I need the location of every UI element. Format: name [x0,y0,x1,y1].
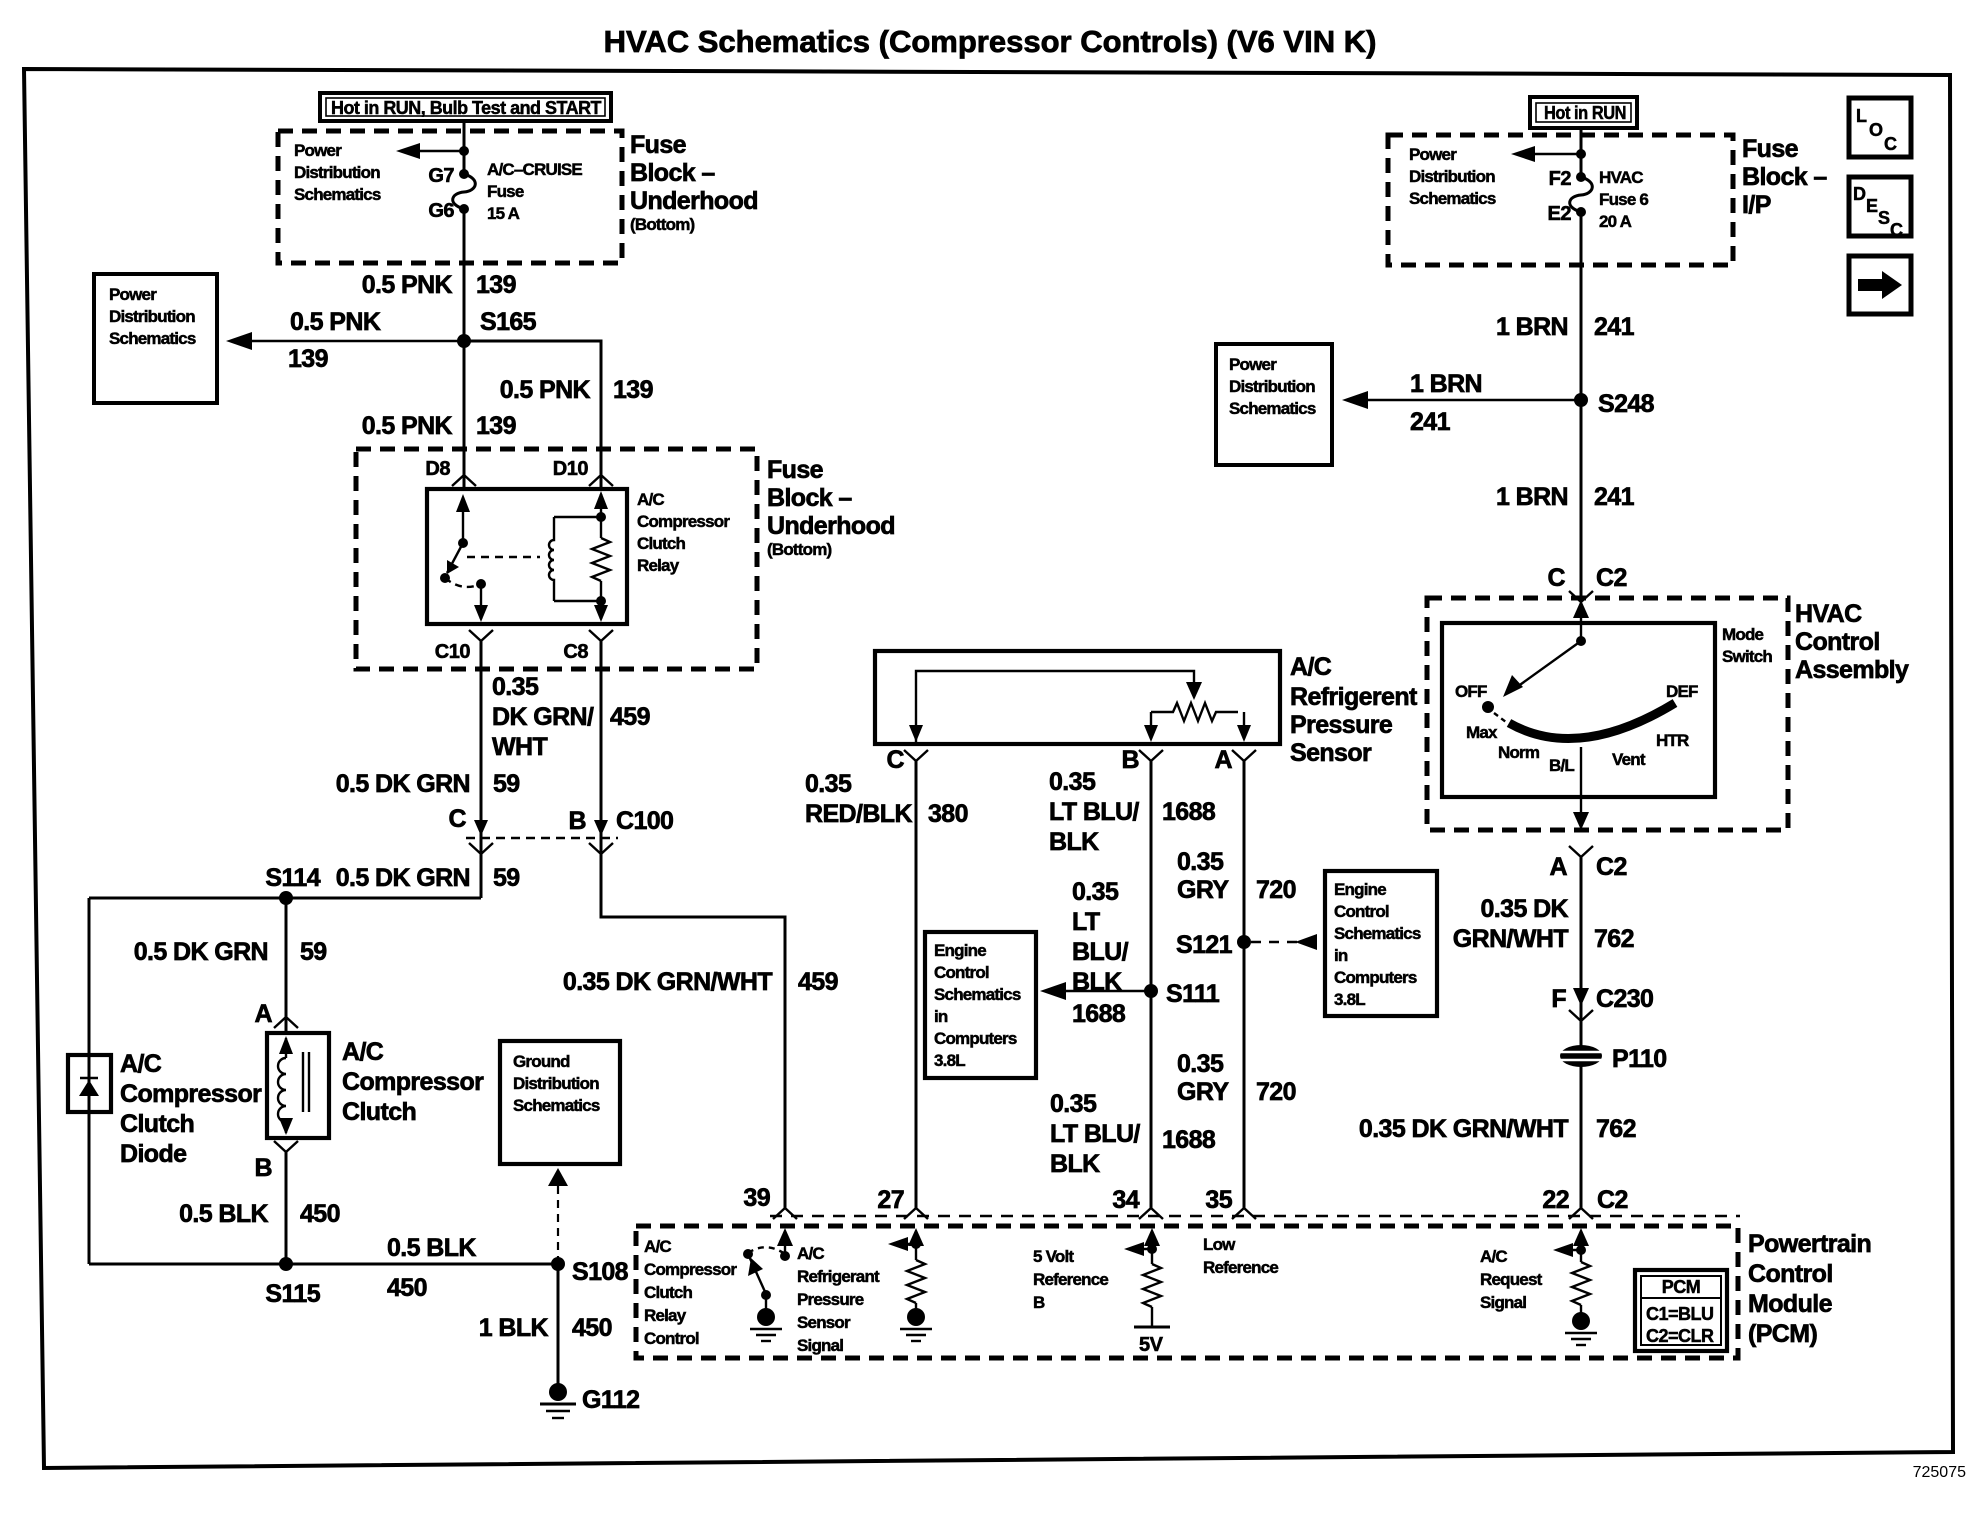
svg-text:Switch: Switch [1722,647,1772,666]
svg-text:Fuse: Fuse [630,131,687,159]
wire into mode switch [1573,600,1589,641]
wire sensor B to PCM pin 34 [1150,761,1153,1208]
svg-text:0.35: 0.35 [805,770,852,798]
svg-text:A: A [1550,853,1568,881]
svg-text:1688: 1688 [1162,1126,1216,1154]
connector C100 dashed separator [466,837,618,839]
label 0.5 BLK 450 [179,1200,340,1228]
svg-text:BLU/: BLU/ [1072,938,1129,966]
svg-text:E: E [1866,196,1878,216]
svg-text:762: 762 [1594,925,1634,953]
svg-text:139: 139 [288,345,328,373]
connector C100 pin B [569,807,674,854]
svg-text:Schematics: Schematics [513,1096,600,1115]
svg-text:459: 459 [798,968,838,996]
Hot in RUN Bulb Test and START label box [320,93,611,121]
svg-text:Block –: Block – [767,484,852,512]
connector C2 pin A [1550,846,1627,881]
svg-text:in: in [1334,946,1348,965]
pin C connector chevron [887,746,928,774]
svg-text:725075: 725075 [1913,1464,1966,1481]
svg-text:59: 59 [493,770,520,798]
label 0.5 DK GRN 59 (S114 row) [336,864,520,892]
svg-text:I/P: I/P [1742,191,1771,219]
wire G6 down to S165 and relay [463,209,466,489]
label 0.35 DK GRN/WHT 762 (lower) [1359,1115,1636,1143]
svg-text:C: C [1548,564,1566,592]
A/C compressor clutch relay box [427,489,627,624]
svg-text:Norm: Norm [1498,743,1540,762]
svg-text:Block –: Block – [630,159,715,187]
svg-text:Vent: Vent [1612,750,1646,769]
svg-text:in: in [934,1007,948,1026]
svg-text:DEF: DEF [1666,682,1698,701]
svg-text:A: A [255,1000,273,1028]
A/C compressor clutch diode [68,1055,111,1112]
svg-text:A/C: A/C [1290,653,1332,681]
label Fuse Block - I/P [1742,135,1827,219]
svg-text:Low: Low [1203,1235,1236,1254]
fuse block underhood dashed box (top) [278,131,622,263]
svg-text:E2: E2 [1548,203,1572,225]
svg-text:241: 241 [1410,408,1451,436]
label 1 BRN 241 (lower) [1496,483,1635,511]
label Mode Switch [1722,625,1772,666]
svg-text:Compressor: Compressor [120,1080,262,1108]
svg-text:A/C: A/C [342,1038,384,1066]
A/C compressor clutch [267,1033,329,1138]
node top feed junction [459,146,469,156]
label 0.5 PNK 139 (above S165) [362,271,516,299]
svg-text:Distribution: Distribution [1409,167,1495,186]
svg-text:Signal: Signal [1480,1293,1526,1312]
svg-text:B/L: B/L [1549,756,1574,775]
svg-text:Distribution: Distribution [1229,377,1315,396]
svg-text:Diode: Diode [120,1140,187,1168]
svg-text:S248: S248 [1598,390,1655,418]
svg-text:S111: S111 [1166,980,1220,1008]
svg-text:241: 241 [1594,483,1635,511]
svg-text:BLK: BLK [1049,828,1099,856]
svg-text:34: 34 [1112,1186,1139,1214]
label 0.35 GRY 720 (lower) [1177,1050,1296,1106]
svg-text:C230: C230 [1596,985,1653,1013]
svg-text:3.8L: 3.8L [1334,990,1365,1009]
svg-text:720: 720 [1256,876,1296,904]
svg-text:S114: S114 [265,864,320,892]
svg-text:D10: D10 [553,458,589,480]
svg-text:139: 139 [476,271,516,299]
svg-text:Schematics: Schematics [934,985,1021,1004]
svg-text:(Bottom): (Bottom) [630,215,695,234]
node S114 [279,891,293,905]
label 0.35 RED/BLK 380 [805,770,968,828]
wire C10 down to junction row [480,641,483,898]
svg-text:Schematics: Schematics [294,185,381,204]
ground distribution schematics box [500,1041,620,1164]
svg-text:O: O [1869,120,1883,140]
svg-text:Power: Power [1229,355,1277,374]
wire E2 down to S248 and HVAC assembly [1580,212,1583,597]
label Low Reference [1203,1235,1278,1277]
svg-text:C2=CLR: C2=CLR [1646,1326,1714,1346]
label A/C Compressor Clutch Relay Control [644,1237,737,1348]
power distribution schematics label (in fuse block) [294,141,381,204]
svg-text:D8: D8 [425,458,450,480]
svg-text:0.5 PNK: 0.5 PNK [290,308,381,336]
connector C100 pin C [449,805,493,854]
svg-text:5 Volt: 5 Volt [1033,1247,1074,1266]
fuse HVAC Fuse 6 20A element [1570,172,1593,217]
label A/C Compressor Clutch Relay [637,490,730,575]
node S108 [551,1257,565,1271]
svg-text:Distribution: Distribution [109,307,195,326]
svg-text:Underhood: Underhood [630,187,758,215]
label A/C Request Signal [1480,1247,1543,1312]
svg-text:WHT: WHT [492,733,547,761]
power distribution schematics label (I/P fuse block) [1409,145,1496,208]
svg-text:3.8L: 3.8L [934,1051,965,1070]
svg-text:G7: G7 [428,165,454,187]
svg-text:0.35: 0.35 [1177,848,1224,876]
pin C10 connector chevron [469,630,493,650]
svg-text:0.35: 0.35 [492,673,539,701]
svg-text:Refrigerant: Refrigerant [797,1267,880,1286]
svg-text:1 BRN: 1 BRN [1496,483,1568,511]
sensor wiper feed wire [916,671,1202,744]
mode switch contact arc [1509,703,1675,739]
wire S115 row to S108 [89,1263,558,1266]
svg-text:20 A: 20 A [1599,212,1632,231]
pin A connector chevron [1215,746,1256,774]
svg-text:0.5 DK GRN: 0.5 DK GRN [336,864,470,892]
svg-text:0.5 BLK: 0.5 BLK [179,1200,268,1228]
pin B connector chevron [1122,746,1163,774]
svg-text:G6: G6 [428,200,454,222]
svg-text:Module: Module [1748,1290,1833,1318]
svg-text:139: 139 [613,376,653,404]
svg-text:0.5 PNK: 0.5 PNK [500,376,591,404]
svg-text:Clutch: Clutch [120,1110,194,1138]
label 0.5 DK GRN 59 [336,770,520,798]
dashed reference arrow S121 to engine control box [1251,934,1317,950]
svg-text:Sensor: Sensor [797,1313,851,1332]
svg-text:Power: Power [294,141,342,160]
svg-text:C: C [1890,220,1903,240]
relay switch arm [440,494,470,583]
label 0.5 DK GRN 59 (clutch feed) [134,938,327,966]
relay output wire to C10 [474,579,488,622]
svg-text:762: 762 [1596,1115,1636,1143]
svg-text:HVAC: HVAC [1599,168,1643,187]
sensor pin C exit arrow [909,725,923,742]
wire arrow S248 to power distribution box [1342,370,1581,436]
svg-text:Hot in RUN: Hot in RUN [1544,103,1626,123]
relay contact output dashed curve [445,578,481,587]
LOC reference box [1849,98,1911,157]
svg-text:Engine: Engine [934,941,986,960]
PCM connector face dashed line [770,1215,1740,1217]
svg-text:0.35 DK: 0.35 DK [1480,895,1568,923]
label 0.35 DK GRN/WHT 459 (below relay) [492,673,650,761]
svg-text:Request: Request [1480,1270,1543,1289]
label HVAC Control Assembly [1795,600,1909,684]
svg-text:LT: LT [1072,908,1100,936]
ground G112 [540,1383,639,1418]
wire S114 horizontal row [89,897,481,900]
svg-text:RED/BLK: RED/BLK [805,800,912,828]
fuse block underhood dashed box (relay) [356,449,757,669]
svg-text:Clutch: Clutch [342,1098,416,1126]
svg-text:B: B [569,807,586,835]
relay suppression resistor [592,491,610,622]
svg-text:L: L [1856,106,1867,126]
wire sensor A to PCM pin 35 [1243,761,1246,1208]
svg-text:1 BLK: 1 BLK [479,1314,549,1342]
svg-text:G112: G112 [582,1386,639,1414]
wire arrow to power distribution schematics (right) [1511,146,1581,162]
svg-text:S108: S108 [572,1258,629,1286]
pin 22 connector chevron [1569,1208,1593,1219]
svg-text:Fuse: Fuse [1742,135,1799,163]
pin 34 internal 5V pull-up resistor [1124,1228,1170,1356]
svg-text:C: C [1884,134,1897,154]
sensor potentiometer element [1144,703,1251,742]
svg-text:Reference: Reference [1033,1270,1108,1289]
svg-text:D: D [1853,184,1866,204]
svg-text:Clutch: Clutch [644,1283,693,1302]
svg-text:GRY: GRY [1177,1078,1229,1106]
wire left loop down through diode [88,898,91,1264]
relay coil [549,517,601,601]
svg-text:S121: S121 [1176,931,1233,959]
svg-text:Relay: Relay [637,556,680,575]
svg-text:Engine: Engine [1334,880,1386,899]
fuse A/C-CRUISE 15A element [453,169,476,214]
label HVAC Fuse 6 20 A [1599,168,1648,231]
svg-text:PCM: PCM [1662,1277,1701,1297]
dashed OFF to Max segment [1494,713,1506,722]
node right feed junction [1576,149,1586,159]
svg-text:A: A [1215,746,1233,774]
svg-text:0.5 DK GRN: 0.5 DK GRN [336,770,470,798]
wire S114 down to clutch [285,898,288,1033]
label A/C-CRUISE Fuse 15 A [487,160,582,223]
svg-text:Pressure: Pressure [797,1290,864,1309]
svg-text:Control: Control [1334,902,1389,921]
svg-text:0.35 DK GRN/WHT: 0.35 DK GRN/WHT [1359,1115,1568,1143]
svg-text:0.5 DK GRN: 0.5 DK GRN [134,938,268,966]
label 0.35 DK GRN/WHT 762 (upper) [1453,895,1634,953]
label A/C Refrigerent Pressure Sensor [1290,653,1418,767]
svg-text:Control: Control [644,1329,699,1348]
svg-text:C: C [887,746,905,774]
label 0.35 DK GRN/WHT 459 (long run) [563,968,838,996]
PCM dashed box [636,1226,1738,1358]
svg-text:Fuse: Fuse [767,456,824,484]
pin C8 connector chevron [589,630,613,650]
label 0.35 GRY 720 (upper) [1177,848,1296,904]
svg-text:Assembly: Assembly [1795,656,1909,684]
label A/C Refrigerant Pressure Sensor Signal [797,1244,880,1355]
svg-text:Schematics: Schematics [109,329,196,348]
svg-text:C2: C2 [1597,1186,1628,1214]
svg-text:A/C: A/C [637,490,664,509]
label 0.5 PNK 139 (left branch to D8) [362,412,516,440]
svg-text:C1=BLU: C1=BLU [1646,1304,1714,1324]
node S165 [457,334,471,348]
svg-text:S165: S165 [480,308,537,336]
svg-text:1688: 1688 [1072,1000,1126,1028]
node S121 [1237,935,1251,949]
wire mode switch output [1573,747,1589,830]
svg-text:459: 459 [610,703,650,731]
svg-text:LT BLU/: LT BLU/ [1050,1120,1140,1148]
svg-text:Compressor: Compressor [644,1260,737,1279]
svg-text:241: 241 [1594,313,1635,341]
svg-text:C: C [449,805,467,833]
svg-text:GRN/WHT: GRN/WHT [1453,925,1569,953]
svg-text:1688: 1688 [1162,798,1216,826]
label A/C Compressor Clutch [342,1038,484,1126]
wire arrow S165 to power distribution box [226,308,464,373]
svg-text:(PCM): (PCM) [1748,1320,1817,1348]
svg-text:Fuse 6: Fuse 6 [1599,190,1648,209]
wire clutch B down to S115 [285,1152,288,1264]
arrow reference box [1849,256,1911,314]
svg-text:0.35: 0.35 [1049,768,1096,796]
pin D8 connector chevron [452,475,476,486]
svg-text:GRY: GRY [1177,876,1229,904]
svg-text:139: 139 [476,412,516,440]
PCM connector legend box [1635,1270,1727,1351]
svg-text:F2: F2 [1549,168,1572,190]
svg-text:P110: P110 [1612,1045,1667,1073]
svg-text:Compressor: Compressor [342,1068,484,1096]
svg-text:Powertrain: Powertrain [1748,1230,1871,1258]
pin B connector chevron [274,1141,298,1152]
pin 35 connector chevron [1232,1208,1256,1219]
svg-text:0.35: 0.35 [1072,878,1119,906]
wire HVAC output down to PCM pin 22 [1580,857,1583,1208]
svg-text:C8: C8 [563,641,588,663]
label Powertrain Control Module (PCM) [1748,1230,1871,1348]
engine control schematics box (right of S121) [1325,871,1437,1016]
svg-text:0.5 BLK: 0.5 BLK [387,1234,476,1262]
svg-text:Ground: Ground [513,1052,570,1071]
svg-text:450: 450 [300,1200,340,1228]
pin 27 internal pull-down resistor [888,1228,932,1341]
svg-text:720: 720 [1256,1078,1296,1106]
svg-text:Sensor: Sensor [1290,739,1372,767]
svg-text:1 BRN: 1 BRN [1496,313,1568,341]
svg-text:BLK: BLK [1050,1150,1100,1178]
Hot in RUN label box (right) [1530,97,1637,128]
HVAC control assembly dashed box [1427,598,1788,830]
label 0.35 LT BLU/BLK (mid, above S111) [1072,878,1129,1028]
pass-through grommet P110 [1556,1045,1667,1073]
wire from Hot in RUN into fuse block [463,121,466,174]
svg-text:0.35 DK GRN/WHT: 0.35 DK GRN/WHT [563,968,772,996]
svg-text:0.5 PNK: 0.5 PNK [362,412,453,440]
svg-text:S115: S115 [265,1280,320,1308]
node S248 [1574,393,1588,407]
mode switch box [1442,623,1715,797]
wire arrow to power distribution schematics [396,143,464,159]
svg-text:Distribution: Distribution [513,1074,599,1093]
svg-text:Pressure: Pressure [1290,711,1393,739]
svg-text:HVAC Schematics (Compressor Co: HVAC Schematics (Compressor Controls) (V… [604,24,1377,59]
power distribution schematics box (left) [94,274,217,403]
svg-text:Mode: Mode [1722,625,1764,644]
svg-text:Relay: Relay [644,1306,687,1325]
svg-text:HVAC: HVAC [1795,600,1862,628]
label 5 Volt Reference B [1033,1247,1108,1312]
label 0.5 PNK 139 (right branch) [500,376,653,404]
svg-text:B: B [255,1154,272,1182]
svg-text:5V: 5V [1139,1334,1164,1356]
svg-text:22: 22 [1542,1186,1569,1214]
power distribution schematics box (right) [1216,344,1332,465]
svg-text:0.5 PNK: 0.5 PNK [362,271,453,299]
pin 39 connector chevron [773,1208,797,1219]
reference arrow S111 to engine control box [1040,982,1151,1000]
svg-text:Block –: Block – [1742,163,1827,191]
label A/C Compressor Clutch Diode [120,1050,262,1168]
svg-text:Power: Power [1409,145,1457,164]
node S115 [279,1257,293,1271]
svg-text:Power: Power [109,285,157,304]
svg-text:LT BLU/: LT BLU/ [1049,798,1139,826]
pin D10 connector chevron [589,475,613,486]
svg-text:39: 39 [743,1184,770,1212]
dashed wire ground box to S108 [548,1168,568,1264]
connector C230 pin F [1551,985,1653,1021]
svg-text:C2: C2 [1596,564,1627,592]
svg-text:Reference: Reference [1203,1258,1278,1277]
svg-text:B: B [1033,1293,1045,1312]
label 0.35 LT BLU/BLK 1688 (upper) [1049,768,1216,856]
label 1 BRN 241 (upper) [1496,313,1635,341]
svg-text:Underhood: Underhood [767,512,895,540]
svg-text:F: F [1551,985,1566,1013]
svg-text:Fuse: Fuse [487,182,524,201]
svg-text:450: 450 [572,1314,612,1342]
svg-text:1 BRN: 1 BRN [1410,370,1482,398]
mode switch wiper arm [1503,636,1586,697]
svg-text:Computers: Computers [934,1029,1017,1048]
wire S165 right branch down to D10 [464,341,601,489]
svg-text:Schematics: Schematics [1229,399,1316,418]
svg-text:Schematics: Schematics [1409,189,1496,208]
svg-text:A/C: A/C [120,1050,162,1078]
svg-text:15 A: 15 A [487,204,520,223]
svg-text:35: 35 [1205,1186,1232,1214]
label 1 BLK 450 [479,1314,612,1342]
wire sensor C to PCM pin 27 [915,761,918,1208]
wire S108 down to G112 [557,1264,560,1385]
svg-text:Refrigerent: Refrigerent [1290,683,1418,711]
svg-text:Max: Max [1466,723,1498,742]
label Fuse Block - Underhood (Bottom) [630,131,758,234]
svg-text:Computers: Computers [1334,968,1417,987]
svg-text:C100: C100 [616,807,673,835]
wire from Hot in RUN into I/P fuse block [1580,128,1583,177]
svg-text:27: 27 [877,1186,904,1214]
svg-text:59: 59 [493,864,520,892]
svg-text:Clutch: Clutch [637,534,686,553]
svg-text:C2: C2 [1596,853,1627,881]
